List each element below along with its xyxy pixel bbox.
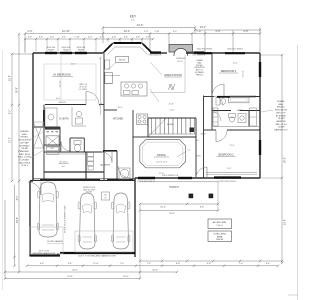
svg-text:9-0 CLG: 9-0 CLG	[243, 70, 245, 77]
svg-text:4'-6": 4'-6"	[28, 36, 33, 38]
svg-text:2'-10": 2'-10"	[196, 31, 201, 33]
svg-text:AT BRAND: AT BRAND	[276, 114, 287, 117]
svg-text:HUNG: HUNG	[48, 49, 54, 51]
svg-text:(TWO) 2668 FR. DR: (TWO) 2668 FR. DR	[162, 175, 179, 177]
svg-text:11'-4": 11'-4"	[230, 145, 235, 147]
svg-text:21'-8": 21'-8"	[168, 104, 173, 106]
svg-text:WALL CONST: WALL CONST	[18, 156, 32, 159]
svg-text:LAUNDRY: LAUNDRY	[100, 164, 111, 167]
svg-text:24'-8": 24'-8"	[17, 217, 19, 223]
svg-text:BEDROOM 3: BEDROOM 3	[221, 70, 237, 73]
svg-text:4'-6": 4'-6"	[40, 263, 45, 265]
svg-text:7-B AIR: 7-B AIR	[277, 126, 285, 129]
svg-text:INSTALL: INSTALL	[20, 136, 29, 139]
svg-text:TIE AIR: TIE AIR	[21, 147, 29, 150]
svg-text:10'-4": 10'-4"	[124, 29, 131, 33]
svg-text:HUNG: HUNG	[78, 49, 84, 51]
svg-text:FRAMED: FRAMED	[20, 130, 29, 133]
svg-text:22'-8": 22'-8"	[10, 75, 12, 81]
svg-text:AREA: AREA	[217, 235, 223, 238]
svg-text:KITCHEN: KITCHEN	[113, 118, 124, 121]
svg-text:26'-0": 26'-0"	[72, 269, 78, 271]
svg-text:FRESCO: FRESCO	[196, 74, 204, 76]
svg-text:4'-6": 4'-6"	[243, 29, 248, 33]
svg-text:BARRIER 16T: BARRIER 16T	[274, 129, 288, 132]
svg-text:DINING: DINING	[157, 154, 166, 157]
svg-text:R-19 BATT: R-19 BATT	[19, 159, 30, 162]
svg-text:4'-6": 4'-6"	[62, 166, 66, 168]
svg-text:2'-2": 2'-2"	[108, 45, 112, 47]
svg-text:4'-0": 4'-0"	[173, 31, 177, 33]
svg-text:(TWO) 3050 SGL: (TWO) 3050 SGL	[148, 55, 161, 57]
svg-text:WALL INSUL: WALL INSUL	[18, 161, 31, 164]
svg-text:KEY: KEY	[130, 15, 137, 19]
svg-text:BARRIER: BARRIER	[20, 150, 30, 153]
svg-text:INSTALL: INSTALL	[277, 106, 286, 109]
svg-text:LIV SPACE: LIV SPACE	[79, 88, 88, 91]
svg-text:4'-0": 4'-0"	[131, 20, 135, 22]
svg-text:10'-4": 10'-4"	[117, 107, 122, 109]
svg-text:11'-0": 11'-0"	[93, 263, 99, 265]
svg-text:(2) 9' X 7' O.H. INSULATED GAR: (2) 9' X 7' O.H. INSULATED GARAGE DOORS	[78, 255, 116, 258]
svg-text:WALL BLKD: WALL BLKD	[275, 123, 287, 126]
svg-text:6'-8": 6'-8"	[195, 140, 199, 142]
svg-text:5'-8": 5'-8"	[112, 36, 117, 38]
svg-text:BARRIER: BARRIER	[276, 120, 286, 123]
svg-text:6'-8": 6'-8"	[200, 207, 205, 209]
svg-text:18'-4": 18'-4"	[160, 207, 166, 209]
svg-text:4'-6": 4'-6"	[39, 36, 44, 38]
svg-text:INSULATION: INSULATION	[18, 139, 31, 142]
svg-text:AIR GAP: AIR GAP	[20, 141, 29, 144]
svg-text:16'-8": 16'-8"	[67, 276, 73, 278]
svg-text:SLOPE GARAGE: SLOPE GARAGE	[47, 240, 63, 243]
svg-text:10'-0 X 11'-6: 10'-0 X 11'-6	[156, 162, 168, 164]
svg-text:8'-0": 8'-0"	[17, 196, 19, 201]
svg-text:INSULATED GARAGE DOOR: INSULATED GARAGE DOOR	[33, 252, 56, 255]
svg-text:14'-0": 14'-0"	[55, 98, 60, 100]
svg-text:2'-0": 2'-0"	[88, 36, 93, 38]
svg-text:2'-0": 2'-0"	[144, 31, 149, 33]
svg-text:42'-8": 42'-8"	[152, 269, 158, 271]
svg-text:7'-4": 7'-4"	[120, 263, 125, 265]
svg-text:2'-2": 2'-2"	[142, 45, 146, 47]
svg-text:AIR G KIT: AIR G KIT	[276, 111, 286, 114]
svg-text:11'-4": 11'-4"	[170, 110, 175, 112]
svg-text:(TWO) 3050 SGL H.: (TWO) 3050 SGL H.	[218, 181, 236, 183]
svg-text:INSULATION: INSULATION	[275, 109, 288, 112]
svg-text:5'-8": 5'-8"	[100, 36, 105, 38]
svg-text:11'-4": 11'-4"	[233, 63, 238, 65]
svg-text:AT BRAND: AT BRAND	[19, 144, 30, 147]
svg-text:36'-8": 36'-8"	[285, 157, 287, 163]
svg-text:41'-0": 41'-0"	[123, 276, 129, 278]
svg-text:2'-10": 2'-10"	[154, 31, 159, 33]
svg-text:FRAME: FRAME	[277, 100, 285, 103]
svg-text:DOWN: DOWN	[167, 124, 174, 126]
svg-text:7'-4": 7'-4"	[147, 263, 152, 265]
svg-text:2668 DR: 2668 DR	[58, 102, 66, 104]
svg-text:4'-0": 4'-0"	[50, 36, 55, 38]
svg-text:14'-0": 14'-0"	[70, 64, 75, 66]
svg-text:25'-0": 25'-0"	[169, 213, 175, 215]
svg-text:14'-10": 14'-10"	[177, 61, 183, 63]
svg-text:4'-6": 4'-6"	[68, 263, 73, 265]
svg-text:36'-8": 36'-8"	[17, 87, 19, 93]
svg-text:4'-6": 4'-6"	[266, 263, 271, 265]
svg-text:7'-10": 7'-10"	[74, 36, 80, 38]
svg-text:3050 SGL HUNG: 3050 SGL HUNG	[227, 49, 243, 51]
svg-text:44'-0": 44'-0"	[137, 23, 144, 27]
svg-text:UP 12" AT: UP 12" AT	[79, 86, 87, 89]
svg-text:8'-0": 8'-0"	[10, 110, 12, 115]
svg-text:4'-4": 4'-4"	[62, 36, 67, 38]
svg-text:M. BEDROOM: M. BEDROOM	[53, 73, 70, 77]
svg-text:BATH: BATH	[237, 109, 243, 112]
svg-text:7'-4": 7'-4"	[239, 263, 244, 265]
svg-text:2'-8": 2'-8"	[146, 36, 151, 38]
svg-text:3050 SGL HUNG: 3050 SGL HUNG	[197, 49, 213, 51]
svg-text:(TWO) 3050 SGL: (TWO) 3050 SGL	[192, 55, 205, 57]
svg-text:SLOPE FLOOR (UPPER POINT): SLOPE FLOOR (UPPER POINT)	[65, 205, 67, 233]
svg-text:BEDROOM 2: BEDROOM 2	[218, 154, 234, 157]
svg-text:M. BATH: M. BATH	[59, 118, 68, 121]
svg-text:PORCH: PORCH	[169, 186, 178, 189]
svg-text:6'-8": 6'-8"	[176, 263, 181, 265]
svg-text:11'-4": 11'-4"	[227, 168, 232, 170]
svg-text:TOTAL LIVING: TOTAL LIVING	[213, 233, 226, 236]
svg-text:WALL: WALL	[278, 103, 284, 106]
svg-text:4'-6": 4'-6"	[124, 36, 129, 38]
svg-text:HUNG: HUNG	[63, 49, 69, 51]
svg-text:FLOOR: FLOOR	[86, 192, 93, 194]
svg-text:2'-8": 2'-8"	[136, 36, 141, 38]
svg-text:TIE AIR: TIE AIR	[277, 117, 285, 120]
svg-text:TRAY CLG: TRAY CLG	[79, 83, 88, 86]
svg-text:(BCK): (BCK)	[196, 156, 201, 158]
svg-text:4'-6": 4'-6"	[27, 29, 32, 33]
svg-text:CLG: 9': CLG: 9'	[217, 225, 224, 227]
svg-text:24'-2": 24'-2"	[200, 25, 207, 29]
svg-text:W. CLO: W. CLO	[60, 162, 68, 164]
svg-text:ALL MID LEVEL: ALL MID LEVEL	[213, 221, 227, 224]
svg-text:16'-10": 16'-10"	[62, 29, 70, 33]
svg-text:WALL: WALL	[22, 133, 28, 136]
svg-text:WALL BLKD: WALL BLKD	[19, 153, 31, 156]
svg-text:15'-0": 15'-0"	[10, 137, 12, 143]
svg-text:NOOK: NOOK	[119, 60, 126, 62]
svg-text:4'-6": 4'-6"	[215, 29, 220, 33]
svg-text:1968 SF: 1968 SF	[216, 239, 224, 241]
svg-text:GREAT ROOM: GREAT ROOM	[164, 73, 182, 77]
svg-text:6'-8": 6'-8"	[207, 263, 212, 265]
svg-text:22'-8": 22'-8"	[285, 219, 287, 225]
svg-text:9-0: 9-0	[188, 150, 191, 152]
svg-text:15 SF V: 15 SF V	[21, 165, 29, 167]
